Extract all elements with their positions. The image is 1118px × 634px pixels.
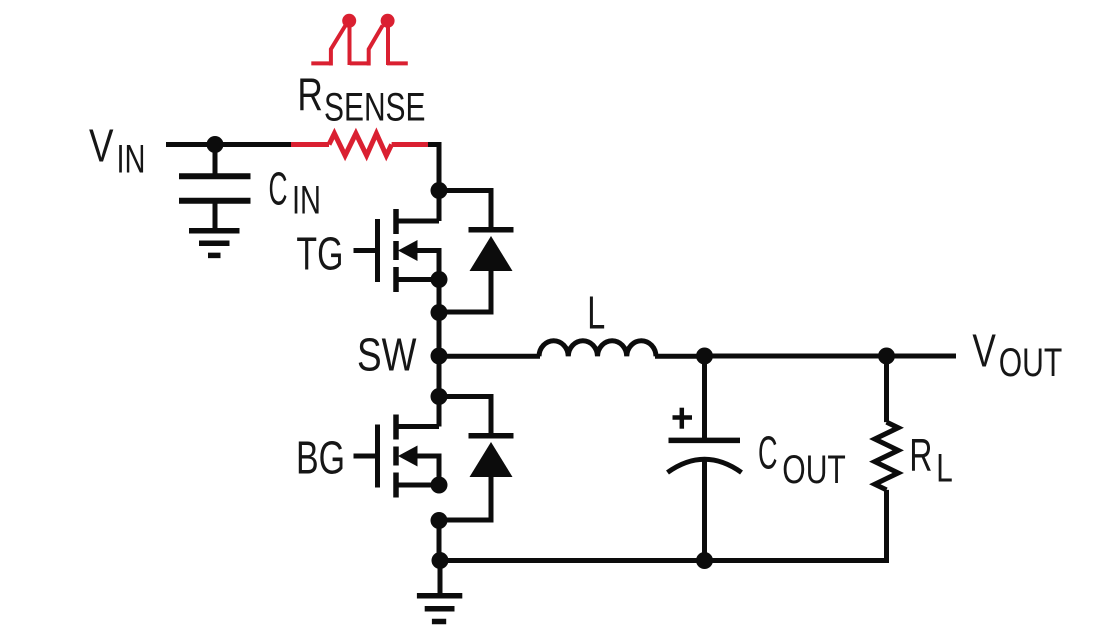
label RSENSE (297, 68, 425, 129)
resistor RL (875, 356, 898, 563)
ground (under CIN) (189, 231, 240, 256)
svg-text:OUT: OUT (782, 448, 846, 492)
svg-text:SW: SW (357, 329, 417, 381)
resistor RSENSE zigzag (red) (329, 134, 392, 156)
junction rail/ground (432, 552, 449, 569)
svg-text:BG: BG (296, 432, 345, 484)
svg-text:V: V (89, 120, 114, 172)
wire SW to inductor (439, 354, 540, 359)
ground (main) (417, 561, 462, 622)
svg-text:OUT: OUT (999, 341, 1063, 385)
junction BG drain (431, 388, 448, 405)
junction TG source (431, 271, 448, 288)
wire corner into TG drain (428, 145, 439, 192)
svg-text:C: C (758, 427, 778, 479)
body diode of TG (439, 191, 514, 313)
wire BG to ground rail (437, 521, 442, 561)
label CIN (269, 163, 322, 223)
red wire into RSENSE (291, 142, 329, 147)
junction VIN/CIN (207, 136, 224, 153)
label RL (909, 429, 952, 490)
svg-text:IN: IN (292, 179, 321, 223)
MOSFET BG (354, 397, 440, 498)
capacitor C_IN (179, 147, 251, 231)
junction TG drain (431, 182, 448, 199)
red wire out of RSENSE (392, 142, 428, 147)
wire inductor to COUT junction (655, 354, 705, 359)
inductor L (539, 341, 656, 357)
wire VIN to RSENSE (black) (166, 142, 291, 147)
svg-text:V: V (972, 325, 996, 377)
svg-text:C: C (269, 163, 288, 215)
svg-text:R: R (297, 68, 323, 120)
node SW junction (431, 348, 448, 365)
junction VOUT/RL (878, 348, 895, 365)
junction COUT/rail (696, 552, 713, 569)
svg-text:L: L (587, 286, 605, 338)
node label VIN (89, 120, 146, 182)
svg-text:IN: IN (117, 138, 146, 182)
junction BG source (431, 477, 448, 494)
junction L/COUT (696, 348, 713, 365)
wire to VOUT label (887, 354, 957, 359)
MOSFET TG (354, 191, 440, 293)
wire bottom rail (440, 558, 887, 563)
wire COUT junction to VOUT junction (705, 354, 887, 359)
svg-text:TG: TG (296, 228, 343, 280)
svg-text:L: L (936, 447, 953, 491)
label COUT (758, 427, 846, 493)
junction BG diode return (431, 512, 448, 529)
wire TG source to BG drain (through SW node) (437, 280, 442, 397)
junction TG diode return (431, 304, 448, 321)
current sense kelvin probes (red) (311, 14, 408, 66)
capacitor COUT (polarized) (668, 356, 742, 561)
svg-text:R: R (909, 429, 932, 481)
svg-text:SENSE: SENSE (324, 85, 426, 129)
node label VOUT (972, 325, 1062, 386)
body diode of BG (439, 397, 514, 521)
